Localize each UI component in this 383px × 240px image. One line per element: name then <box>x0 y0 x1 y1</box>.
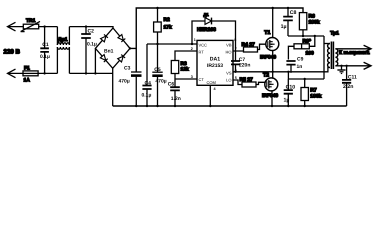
pin 7 <box>235 47 237 51</box>
wire primary top feed <box>324 43 330 45</box>
svg-text:К выпрямит.: К выпрямит. <box>339 50 370 56</box>
node T2 source rail tap <box>271 105 273 107</box>
svg-text:C1: C1 <box>42 42 49 48</box>
resistor R4 <box>233 42 266 52</box>
node C8 rail tap <box>287 7 289 9</box>
svg-text:IRF840: IRF840 <box>262 93 278 99</box>
pin 2 <box>191 47 193 51</box>
wire divider midpoint bus top <box>288 35 324 37</box>
resistor R6 <box>299 13 319 36</box>
svg-text:IR2153: IR2153 <box>207 63 223 69</box>
arrow mains input bottom <box>8 69 16 78</box>
svg-text:Др1: Др1 <box>58 37 68 43</box>
node T1 drain rail tap <box>272 7 274 9</box>
svg-text:VS: VS <box>226 70 232 75</box>
label 220V mains <box>4 49 21 56</box>
node midpoint T1 T2 <box>272 71 274 73</box>
wire bridge AC2 drop <box>94 48 96 73</box>
node R2 rail tap <box>156 7 158 9</box>
node AC2 tee <box>94 72 96 74</box>
capacitor C7 bootstrap <box>231 44 250 72</box>
svg-text:C6: C6 <box>168 81 175 87</box>
wire mains bottom lead <box>8 72 113 74</box>
svg-text:R8*: R8* <box>303 38 311 44</box>
svg-text:Д1: Д1 <box>204 12 210 17</box>
node rail C6 <box>174 105 176 107</box>
wire bottom rail <box>113 105 347 107</box>
pin 4 <box>214 87 217 91</box>
svg-text:180k: 180k <box>309 20 320 26</box>
diode D1 HER108 bootstrap <box>192 12 236 44</box>
svg-text:LO: LO <box>226 78 231 83</box>
svg-text:0.1µ: 0.1µ <box>87 41 97 47</box>
capacitor C2 <box>81 27 97 74</box>
svg-text:470µ: 470µ <box>155 79 166 85</box>
node secondary ground tap <box>340 65 342 67</box>
wire half-bridge midpoint VS <box>233 68 330 72</box>
svg-text:Вп1: Вп1 <box>104 49 114 55</box>
svg-text:C9: C9 <box>297 57 304 63</box>
svg-text:IRF840: IRF840 <box>260 54 276 60</box>
svg-text:R2: R2 <box>164 17 171 23</box>
node rail C5 <box>156 105 158 107</box>
diode bridge top-left <box>100 34 107 41</box>
wire CT <box>175 78 197 80</box>
svg-text:VB: VB <box>226 43 232 48</box>
svg-text:R4 27: R4 27 <box>242 42 256 48</box>
node VCC R2 tap <box>156 43 158 45</box>
node rail C4 <box>146 105 148 107</box>
capacitor C11 <box>342 66 357 106</box>
choke Dr1 common-mode <box>57 27 69 74</box>
arrow mains input top <box>8 22 16 31</box>
pin 5 <box>235 76 237 80</box>
label to rectifier <box>339 50 370 56</box>
wire VCC bus <box>147 43 197 45</box>
node C2 bottom <box>85 72 87 74</box>
svg-text:0.1µ: 0.1µ <box>142 93 152 99</box>
svg-text:C3: C3 <box>124 65 131 71</box>
svg-text:F1: F1 <box>24 66 30 72</box>
fuse F1 <box>23 66 38 84</box>
svg-text:17k: 17k <box>164 24 172 30</box>
svg-text:DA1: DA1 <box>210 56 220 62</box>
node rail C10 <box>287 105 289 107</box>
resistor R5 <box>233 77 265 87</box>
capacitor C9 <box>286 57 303 73</box>
svg-text:5: 5 <box>235 76 237 80</box>
capacitor C5 electrolytic <box>152 44 166 106</box>
svg-text:2.2n: 2.2n <box>343 84 353 90</box>
wire secondary output bottom <box>335 62 371 69</box>
svg-text:T1: T1 <box>264 30 270 36</box>
ground <box>337 66 345 74</box>
node R6 bus tap <box>302 35 304 37</box>
capacitor C8 <box>281 8 297 36</box>
node C7 bottom VS tap <box>234 71 236 73</box>
resistor R7 <box>301 78 322 106</box>
svg-text:1.2n: 1.2n <box>171 96 181 102</box>
diode bridge top-right <box>118 34 125 41</box>
node R8 divider tap <box>314 35 316 37</box>
svg-text:0.1µ: 0.1µ <box>40 54 50 60</box>
svg-text:2: 2 <box>191 47 193 51</box>
node C1 bottom <box>43 72 45 74</box>
node bridge plus tap <box>129 47 131 49</box>
svg-text:C11: C11 <box>348 74 357 80</box>
wire plus rail <box>130 8 303 72</box>
svg-text:CT: CT <box>199 77 205 82</box>
svg-text:12k: 12k <box>181 66 189 72</box>
resistor R8 <box>288 36 314 60</box>
svg-text:C2: C2 <box>88 29 95 35</box>
svg-text:1: 1 <box>194 38 196 42</box>
svg-text:1A: 1A <box>24 77 31 83</box>
svg-text:220n: 220n <box>239 62 250 68</box>
thermistor TR1 <box>21 18 40 32</box>
svg-text:470µ: 470µ <box>119 79 130 85</box>
node C1 top <box>43 25 45 27</box>
svg-text:VCC: VCC <box>199 43 208 48</box>
svg-text:C5: C5 <box>154 67 161 73</box>
wire bridge minus to bottom rail <box>112 68 114 106</box>
node D1 anode VCC tap <box>191 43 193 45</box>
svg-text:RT: RT <box>199 50 205 55</box>
capacitor C6 <box>168 79 181 106</box>
pin 1 <box>194 38 196 42</box>
node secondary C11 tap <box>345 65 347 67</box>
transistor Q2 T2 IRF840 <box>262 73 278 106</box>
svg-text:3: 3 <box>191 75 193 79</box>
node rail C3 <box>135 105 137 107</box>
node rail COM <box>209 105 211 107</box>
svg-text:Тр1: Тр1 <box>330 31 339 37</box>
node C2 top <box>85 25 87 27</box>
op-amp U1 IC DA1 IR2153 <box>197 40 233 85</box>
svg-text:220 В: 220 В <box>4 49 21 56</box>
svg-text:1n: 1n <box>297 64 303 70</box>
svg-text:TR1: TR1 <box>26 18 36 24</box>
svg-text:T2: T2 <box>263 73 269 79</box>
wire divider vertical <box>323 36 325 79</box>
pin 3 <box>191 75 193 79</box>
bridge rectifier Vp1 <box>95 28 130 68</box>
svg-text:HO: HO <box>226 50 232 55</box>
pin 8 <box>234 38 236 42</box>
capacitor C3 electrolytic <box>119 65 142 106</box>
svg-text:C8: C8 <box>290 10 297 16</box>
capacitor C10 <box>284 79 296 106</box>
capacitor C4 <box>142 44 152 106</box>
svg-text:1µ: 1µ <box>281 24 287 30</box>
wire divider bus bottom <box>288 72 324 79</box>
transformer Tr1 <box>328 31 340 69</box>
svg-text:HER108: HER108 <box>197 27 216 33</box>
node rail R7 <box>304 105 306 107</box>
svg-text:100: 100 <box>306 50 315 56</box>
svg-text:4: 4 <box>214 87 217 91</box>
svg-text:C10: C10 <box>286 85 296 91</box>
svg-text:1µ: 1µ <box>284 98 290 104</box>
resistor R2 <box>154 8 172 44</box>
svg-text:180k: 180k <box>310 93 321 99</box>
wire mains top lead <box>8 27 114 28</box>
diode bridge bottom-left <box>100 55 107 62</box>
node C9 midpoint tap <box>287 71 289 73</box>
resistor R3 <box>171 51 197 79</box>
wire secondary output top <box>335 45 371 52</box>
pin 6 <box>235 68 237 72</box>
svg-text:R5 27: R5 27 <box>240 77 254 83</box>
diode bridge bottom-right <box>118 55 125 62</box>
svg-text:C4: C4 <box>145 80 152 86</box>
svg-text:COM: COM <box>207 80 216 85</box>
wire COM to bottom rail <box>209 85 211 106</box>
svg-text:R3: R3 <box>181 61 188 67</box>
transistor Q1 T1 IRF840 <box>260 8 279 73</box>
capacitor C1 <box>40 27 50 74</box>
